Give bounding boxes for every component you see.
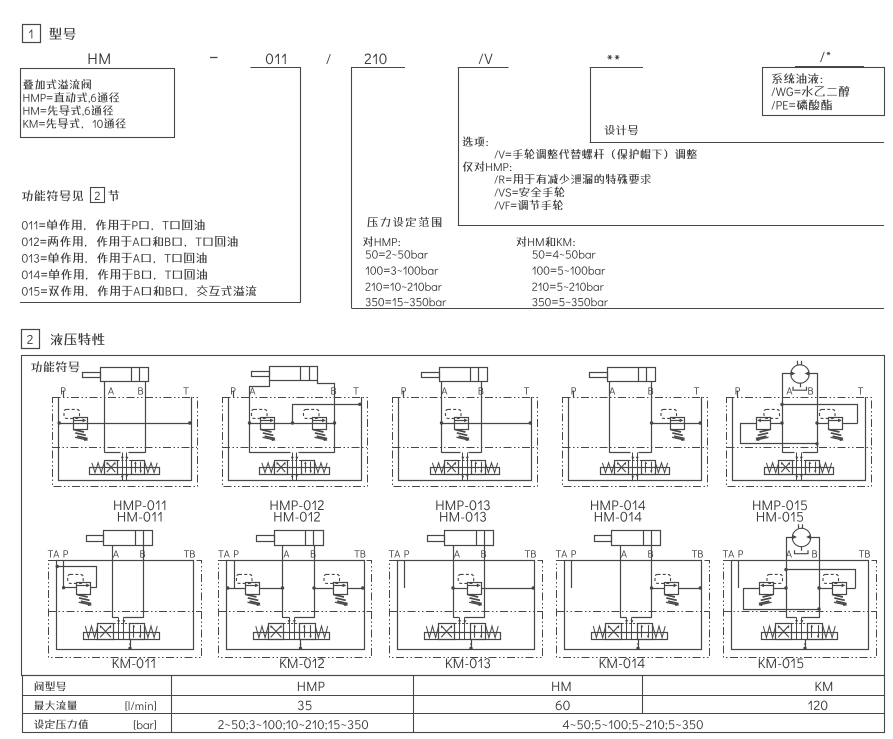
- centre dash-dot line HMP-014: [563, 447, 708, 449]
- sandwich plate outline (dash-dot) HMP-013: [393, 398, 538, 487]
- wire B line: [145, 382, 147, 453]
- function code list: [22, 219, 205, 230]
- port label TA: [556, 550, 567, 557]
- port label A: [787, 387, 793, 394]
- wire A line: [453, 546, 455, 618]
- inner body outline HMP-013: [399, 397, 532, 481]
- wire B line: [143, 546, 145, 618]
- hydraulic cylinder C1: [252, 366, 318, 381]
- relief valve RV1: [758, 574, 782, 606]
- valve drain to tank: [130, 639, 132, 649]
- wire A line: [441, 382, 443, 453]
- hydraulic cylinder C2: [445, 531, 494, 546]
- wire A to valve port: [283, 617, 290, 619]
- relief valve RV2: [820, 409, 844, 441]
- wire A line: [104, 382, 106, 453]
- hydraulic schematic KM-013: [389, 530, 543, 658]
- wire B line: [318, 381, 335, 453]
- wire B line: [484, 546, 486, 618]
- label HMP-015: [753, 500, 807, 510]
- sandwich plate outline (dash-dot) KM-013: [390, 561, 543, 658]
- inner body outline HMP-014: [569, 397, 702, 481]
- port label P: [234, 550, 239, 557]
- sandwich plate outline (dash-dot) HMP-012: [223, 398, 368, 487]
- relief line B to TB: [314, 588, 333, 590]
- port label TB: [184, 550, 195, 557]
- system fluid box: [763, 68, 885, 116]
- centre dash-dot line KM-012: [219, 611, 372, 613]
- inner body outline HMP-015: [733, 397, 866, 481]
- centre dash-dot line HMP-012: [222, 447, 367, 449]
- leader line from /V: [458, 67, 509, 69]
- port label B: [311, 550, 316, 557]
- port label B: [479, 387, 484, 394]
- wire B to valve port: [802, 617, 820, 619]
- centre dash-dot line HMP-011: [52, 447, 197, 449]
- wire B to valve port: [465, 617, 485, 619]
- table row 1: [35, 681, 66, 691]
- relief valve RV2: [823, 574, 847, 606]
- hydraulic cylinder C1: [422, 367, 488, 382]
- hydraulic schematic KM-012: [218, 530, 371, 658]
- cross relief wiring: [740, 423, 757, 425]
- port label A: [454, 550, 460, 557]
- label HM-015: [757, 512, 803, 522]
- leader line from 210: [351, 67, 405, 69]
- section 2 frame: [22, 356, 885, 676]
- port label P: [572, 387, 577, 394]
- P line stub: [404, 560, 406, 588]
- relief line TA to A: [227, 588, 246, 590]
- port label TB: [354, 550, 365, 557]
- wire A line: [609, 382, 611, 453]
- label KM-015: [759, 658, 803, 668]
- options text: [463, 136, 488, 146]
- wire A to valve port: [621, 617, 627, 619]
- port label A: [113, 550, 119, 557]
- P line stub: [234, 560, 236, 588]
- port label A: [442, 387, 448, 394]
- wire motor to A: [783, 374, 791, 453]
- wire A line: [250, 381, 270, 453]
- pressure range text: [368, 217, 442, 227]
- design number note: [605, 125, 638, 135]
- port label B: [808, 387, 813, 394]
- directional control valve DV1: [431, 453, 500, 481]
- wire B line: [651, 546, 653, 618]
- port label P: [739, 550, 744, 557]
- wire A to valve port: [250, 452, 291, 454]
- hydraulic motor M1: [791, 361, 809, 390]
- inner body outline HMP-012: [229, 397, 362, 481]
- P line stub: [63, 560, 65, 588]
- port label A: [284, 550, 290, 557]
- port label T: [353, 387, 358, 394]
- inner body outline KM-014: [565, 561, 702, 650]
- directional control valve DV2: [592, 618, 668, 640]
- inner body outline KM-012: [227, 561, 365, 650]
- port label P: [736, 387, 741, 394]
- directional control valve DV1: [601, 453, 670, 481]
- wire motor to A: [787, 538, 793, 618]
- port label T: [694, 387, 699, 394]
- sandwich plate outline (dash-dot) HMP-014: [563, 398, 708, 487]
- label HM-013: [440, 512, 486, 522]
- specification table: [23, 676, 885, 733]
- wire A to valve port: [454, 617, 460, 619]
- centre dash-dot line KM-015: [723, 611, 876, 613]
- port label A: [108, 387, 114, 394]
- port label B: [648, 550, 653, 557]
- sandwich plate outline (dash-dot) KM-012: [219, 561, 372, 658]
- directional control valve DV2: [254, 618, 330, 640]
- port label TB: [859, 550, 870, 557]
- wire motor to B: [811, 538, 820, 618]
- port label A: [786, 550, 792, 557]
- hydraulic cylinder C2: [104, 531, 153, 546]
- relief valve RV1: [446, 409, 470, 441]
- label KM-014: [600, 658, 645, 668]
- wire B to valve port: [129, 452, 146, 454]
- P port stub: [403, 391, 405, 398]
- relief valve RV1: [252, 409, 276, 441]
- port label A: [621, 550, 627, 557]
- model code row: [89, 53, 110, 64]
- wire B to valve port: [124, 617, 144, 619]
- P port stub: [233, 391, 235, 398]
- port label TA: [723, 550, 734, 557]
- relief line B to T: [652, 423, 702, 425]
- designator box: valve family: [21, 69, 175, 138]
- label HMP-012: [271, 500, 324, 510]
- port label B: [648, 387, 653, 394]
- port label P: [405, 550, 410, 557]
- port label TA: [48, 550, 59, 557]
- wire B to valve port: [803, 452, 818, 454]
- wire A line: [620, 546, 622, 618]
- hydraulic schematic HMP-013 / HM-013: [393, 367, 538, 487]
- wire B to valve port: [299, 452, 335, 454]
- label KM-013: [446, 658, 490, 668]
- label HMP-011: [114, 500, 165, 510]
- sandwich plate outline (dash-dot) HMP-015: [727, 398, 872, 487]
- label HMP-014: [591, 500, 645, 510]
- wire A to valve port: [113, 617, 119, 619]
- centre dash-dot line KM-013: [389, 611, 542, 613]
- relief line A to T: [442, 423, 532, 425]
- valve drain to tank: [471, 639, 473, 649]
- relief valve RV1: [655, 574, 679, 606]
- port label B: [138, 387, 143, 394]
- wire A to valve port: [442, 452, 461, 454]
- valve drain to tank: [300, 639, 302, 649]
- inner body outline HMP-011: [59, 397, 192, 481]
- wire A to valve port: [610, 452, 631, 454]
- relief valve RV2: [324, 574, 348, 606]
- wire A line: [282, 546, 284, 618]
- relief valve RV2: [304, 409, 328, 441]
- centre dash-dot line KM-014: [556, 611, 709, 613]
- hydraulic motor M2: [792, 524, 810, 553]
- wire B line: [314, 546, 316, 618]
- P port stub: [63, 391, 65, 398]
- wire A to valve port: [787, 617, 797, 619]
- hydraulic schematic HMP-014 / HM-014: [563, 367, 708, 487]
- port label P: [402, 387, 407, 394]
- port label P: [61, 387, 66, 394]
- sandwich plate outline (dash-dot) KM-014: [557, 561, 710, 658]
- port label TB: [692, 550, 703, 557]
- hydraulic cylinder C1: [83, 367, 149, 382]
- inner body outline KM-013: [398, 561, 535, 650]
- port label TB: [525, 550, 536, 557]
- P line stub: [738, 560, 740, 588]
- hydraulic schematic HMP-011 / HM-011: [52, 367, 198, 487]
- wire motor to B: [809, 374, 817, 453]
- relief valve RV1: [755, 409, 779, 441]
- relief valve RV1: [64, 409, 88, 441]
- relief valve RV1: [458, 574, 482, 606]
- port label T: [858, 387, 863, 394]
- P line stub: [571, 560, 573, 588]
- leader line from /*: [795, 66, 864, 68]
- leader line from 011: [250, 67, 301, 69]
- wire B to valve port: [639, 452, 652, 454]
- wire A to valve port: [105, 452, 121, 454]
- port label B: [331, 387, 336, 394]
- port label T: [183, 387, 188, 394]
- directional control valve DV1: [90, 453, 160, 481]
- port label B: [812, 550, 817, 557]
- label HMP-013: [436, 500, 489, 510]
- label KM-012: [280, 658, 324, 668]
- label KM-011: [113, 658, 155, 668]
- P port stub: [573, 391, 575, 398]
- directional control valve DV2: [84, 618, 160, 640]
- port label T: [524, 387, 529, 394]
- wire to T: [293, 405, 362, 424]
- inner body outline KM-011: [57, 561, 194, 650]
- wire A to valve port: [783, 452, 795, 454]
- relief line B to TB: [652, 588, 665, 590]
- valve drain to tank: [638, 639, 640, 649]
- wire B line: [651, 382, 653, 453]
- port label A: [609, 387, 615, 394]
- port label B: [140, 550, 145, 557]
- section 2 heading box: [22, 330, 40, 349]
- wire B to valve port: [295, 617, 315, 619]
- wire B to valve port: [469, 452, 482, 454]
- hydraulic cylinder C1: [590, 367, 656, 382]
- label HM-011: [118, 512, 162, 522]
- port label A: [250, 387, 256, 394]
- relief valve RV1: [68, 574, 92, 606]
- relief line A to B: [250, 423, 335, 425]
- sandwich plate outline (dash-dot) KM-011: [49, 561, 202, 658]
- directional control valve DV1: [765, 453, 834, 481]
- centre dash-dot line HMP-013: [393, 447, 538, 449]
- directional control valve DV2: [425, 618, 501, 640]
- centre dash-dot line KM-011: [48, 611, 201, 613]
- hydraulic cylinder C2: [275, 531, 324, 546]
- centre dash-dot line HMP-015: [727, 447, 872, 449]
- section 1 heading box: [23, 25, 41, 43]
- table row 2: [34, 700, 76, 710]
- port label TA: [218, 550, 229, 557]
- P port stub: [737, 391, 739, 398]
- cross relief wiring: [743, 588, 760, 590]
- relief valve RV1: [237, 574, 261, 606]
- sandwich plate outline (dash-dot) KM-015: [724, 561, 877, 658]
- valve drain to tank: [805, 639, 807, 649]
- inner body outline KM-015: [732, 561, 869, 650]
- label HM-012: [274, 512, 320, 522]
- relief line P to T: [58, 423, 191, 425]
- pilot loop P to TA: [64, 587, 77, 589]
- table row 3: [34, 719, 88, 729]
- wire B line: [481, 382, 483, 453]
- hydraulic schematic HMP-015 / HM-015: [727, 361, 872, 487]
- port label P: [64, 550, 69, 557]
- directional control valve DV1: [260, 453, 330, 481]
- directional control valve DV2: [762, 618, 838, 640]
- leader line from **: [590, 67, 643, 69]
- label HM-014: [595, 512, 642, 522]
- hydraulic schematic KM-015: [723, 524, 877, 657]
- port label P: [231, 387, 236, 394]
- port label B: [481, 550, 486, 557]
- relief line A to TB: [453, 588, 467, 590]
- hydraulic schematic KM-014: [556, 530, 710, 658]
- sandwich plate outline (dash-dot) HMP-011: [53, 398, 198, 487]
- hydraulic schematic HMP-012 / HM-012: [222, 366, 368, 487]
- port label P: [572, 550, 577, 557]
- wire B to valve port: [632, 617, 652, 619]
- hydraulic cylinder C2: [612, 531, 661, 546]
- relief valve RV1: [661, 409, 685, 441]
- port label TA: [389, 550, 400, 557]
- wire A line: [112, 546, 114, 618]
- hydraulic schematic KM-011: [48, 530, 202, 658]
- function code note: [22, 190, 83, 201]
